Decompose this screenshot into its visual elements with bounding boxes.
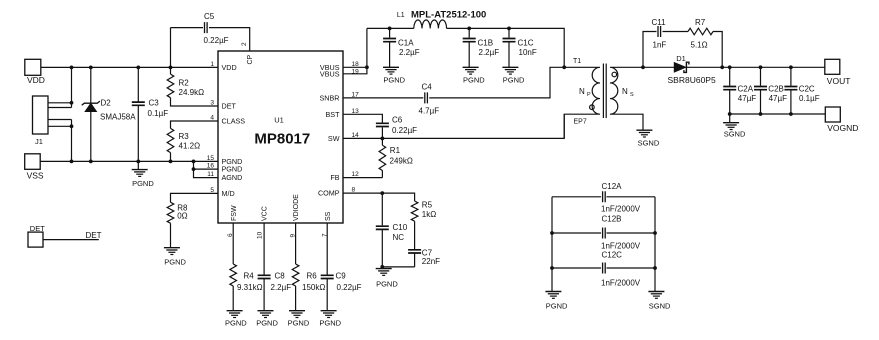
svg-text:N: N	[622, 87, 628, 96]
wire J1 pin stub 3	[48, 119, 72, 121]
ground SGND T1	[636, 129, 652, 131]
junction C1A	[388, 27, 392, 31]
svg-text:VOUT: VOUT	[827, 76, 851, 86]
svg-text:VCC: VCC	[262, 206, 269, 221]
wire PGND bus to pins	[194, 161, 219, 177]
wire CLASS pin4 to R3	[171, 121, 219, 128]
capacitor C12B	[552, 232, 655, 234]
svg-text:PGND: PGND	[376, 279, 398, 288]
svg-text:C5: C5	[204, 12, 215, 21]
svg-text:C8: C8	[275, 272, 286, 281]
svg-text:CP: CP	[247, 54, 254, 64]
svg-text:4.7µF: 4.7µF	[419, 107, 440, 116]
junction C12C	[550, 266, 554, 270]
junction C1C	[507, 27, 511, 31]
svg-text:C2A: C2A	[738, 84, 754, 93]
wire C12 left rail	[551, 197, 553, 292]
junction J1/VSS	[70, 124, 74, 128]
svg-text:10: 10	[257, 231, 264, 239]
ground PGND comp	[381, 267, 383, 269]
port VOUT	[825, 59, 840, 74]
svg-text:C3: C3	[149, 99, 160, 108]
svg-text:NC: NC	[393, 233, 405, 242]
wire VDD rail	[41, 66, 218, 68]
svg-text:VOGND: VOGND	[827, 123, 858, 133]
svg-text:C2B: C2B	[768, 84, 784, 93]
svg-text:R4: R4	[244, 272, 255, 281]
svg-text:PGND: PGND	[288, 318, 310, 327]
ground PGND C8	[258, 310, 274, 312]
wire SNBR pin17	[343, 67, 564, 98]
svg-text:C12A: C12A	[602, 182, 623, 191]
wire J1 pin stub 1	[48, 102, 72, 104]
capacitor C10	[381, 193, 383, 267]
resistor R1	[381, 138, 383, 145]
svg-text:C10: C10	[393, 223, 408, 232]
svg-text:C2C: C2C	[799, 84, 815, 93]
wire J1 pin stub 2	[48, 107, 72, 109]
wire SS pin7	[326, 223, 328, 311]
wire SW pin14	[343, 114, 564, 138]
resistor R5	[411, 201, 418, 221]
wire C12 right rail	[654, 197, 656, 292]
svg-text:1nF/2000V: 1nF/2000V	[601, 278, 641, 287]
resistor R4	[230, 264, 237, 286]
svg-text:1nF/2000V: 1nF/2000V	[601, 242, 641, 251]
svg-text:SBR8U60P5: SBR8U60P5	[668, 75, 716, 85]
svg-text:9.31kΩ: 9.31kΩ	[237, 283, 263, 292]
capacitor C1C	[508, 28, 510, 67]
svg-text:41.2Ω: 41.2Ω	[179, 142, 201, 151]
junction C12B	[550, 231, 554, 235]
svg-text:BST: BST	[326, 110, 341, 119]
junction D2 top	[89, 66, 93, 70]
svg-text:2.2µF: 2.2µF	[271, 283, 292, 292]
junction C2C top	[789, 65, 793, 69]
capacitor C7	[414, 221, 416, 267]
wire D2 branch	[90, 67, 92, 161]
svg-text:C7: C7	[422, 249, 433, 258]
wire D1 cathode	[687, 66, 825, 68]
polarity dot primary	[590, 105, 595, 110]
capacitor C2C	[790, 67, 792, 114]
svg-text:R3: R3	[179, 132, 190, 141]
svg-text:C12B: C12B	[602, 215, 622, 224]
svg-text:5: 5	[210, 187, 214, 194]
junction COMP/C10	[380, 191, 384, 195]
svg-text:SGND: SGND	[724, 130, 746, 139]
junction D2 bottom	[89, 160, 93, 164]
svg-text:EP7: EP7	[574, 119, 587, 126]
capacitor C12C	[552, 267, 655, 269]
wire J1 pin stub 4	[48, 125, 72, 127]
svg-text:D1: D1	[676, 54, 686, 63]
junction SW/C6/R1	[381, 137, 385, 141]
capacitor C3	[132, 102, 145, 105]
resistor R7	[688, 28, 713, 35]
svg-text:C12C: C12C	[602, 251, 623, 260]
svg-text:DET: DET	[86, 231, 102, 240]
svg-text:SNBR: SNBR	[320, 94, 340, 103]
wire VSS rail	[40, 160, 218, 162]
wire FSW pin6	[232, 223, 234, 264]
wire J1 to VSS	[71, 120, 73, 162]
svg-text:15: 15	[207, 155, 215, 162]
capacitor C11	[658, 26, 661, 37]
svg-text:D2: D2	[101, 99, 112, 108]
svg-text:VDD: VDD	[27, 75, 45, 85]
wire top rail right	[447, 28, 565, 67]
svg-text:PGND: PGND	[164, 257, 186, 266]
IC U1 MP8017	[218, 51, 343, 223]
capacitor C4	[425, 92, 428, 103]
wire C3 branch	[137, 67, 139, 161]
ground PGND C9	[321, 310, 337, 312]
wire snubber riser left	[643, 32, 657, 68]
svg-text:PGND: PGND	[503, 76, 525, 85]
wire top rail left	[367, 27, 414, 29]
wire VDD drop to J1	[71, 67, 73, 107]
junction VBUS	[365, 65, 369, 69]
svg-text:DET: DET	[222, 102, 237, 111]
ground SGND C12	[648, 291, 664, 293]
svg-text:VDIODE: VDIODE	[293, 194, 300, 221]
wire VDIODE pin9	[295, 223, 297, 264]
transformer core	[603, 64, 606, 119]
ground PGND R8	[170, 223, 172, 248]
junction PGND bus	[192, 160, 196, 164]
ground PGND R6	[295, 286, 297, 311]
transformer T1 secondary	[610, 67, 643, 130]
junction comp gnd	[380, 265, 384, 269]
junction C3 bottom/gnd	[136, 160, 140, 164]
svg-text:1kΩ: 1kΩ	[422, 210, 436, 219]
wire M/D pin5	[171, 193, 219, 202]
wire snubber riser right	[713, 32, 722, 68]
svg-text:SMAJ58A: SMAJ58A	[100, 113, 136, 122]
resistor R3	[167, 128, 174, 152]
svg-text:SGND: SGND	[638, 139, 660, 148]
svg-text:0.22µF: 0.22µF	[204, 36, 229, 45]
ground PGND C1B	[463, 66, 479, 68]
transformer T1 primary	[564, 67, 600, 138]
svg-text:COMP: COMP	[318, 189, 340, 198]
svg-text:C1C: C1C	[518, 39, 534, 48]
wire FB pin12	[343, 177, 382, 179]
inductor L1	[414, 20, 447, 28]
wire VBUS pins join	[343, 28, 367, 73]
svg-text:0Ω: 0Ω	[177, 212, 187, 221]
svg-text:CLASS: CLASS	[222, 117, 246, 126]
svg-text:J1: J1	[35, 137, 43, 146]
wire R2 to DET pin3	[171, 98, 219, 106]
svg-text:C11: C11	[652, 18, 667, 27]
junction SNBR/rail	[562, 65, 566, 69]
svg-text:150kΩ: 150kΩ	[302, 283, 325, 292]
svg-text:2.2µF: 2.2µF	[399, 48, 420, 57]
svg-text:N: N	[579, 87, 585, 96]
svg-text:PGND: PGND	[256, 318, 278, 327]
wire BST pin13	[343, 114, 382, 122]
wire D1 anode	[643, 66, 675, 68]
capacitor C1B	[468, 28, 470, 67]
svg-text:C1A: C1A	[398, 39, 414, 48]
svg-text:249kΩ: 249kΩ	[390, 156, 413, 165]
wire VCC pin10	[263, 223, 265, 311]
svg-text:S: S	[630, 92, 634, 98]
capacitor C6	[376, 123, 389, 126]
svg-text:1: 1	[210, 61, 214, 68]
resistor R2	[170, 67, 172, 74]
svg-text:SGND: SGND	[649, 301, 671, 310]
wire output gnd rail	[730, 113, 826, 115]
svg-text:C4: C4	[422, 83, 433, 92]
resistor R6	[292, 264, 299, 286]
svg-text:C9: C9	[336, 272, 347, 281]
junction snubber right	[720, 65, 724, 69]
wire COMP pin8	[343, 193, 415, 201]
capacitor C5	[171, 28, 250, 51]
polarity dot secondary	[612, 72, 617, 77]
svg-text:R6: R6	[307, 272, 318, 281]
svg-text:FB: FB	[330, 173, 339, 182]
ground PGND R4	[232, 286, 234, 311]
svg-text:R7: R7	[695, 18, 706, 27]
junction R3/VSS	[169, 160, 173, 164]
svg-text:47µF: 47µF	[769, 94, 788, 103]
capacitor C12A	[552, 196, 655, 198]
svg-text:DET: DET	[30, 224, 45, 233]
svg-text:1nF: 1nF	[653, 41, 667, 50]
ground PGND C1A	[383, 66, 399, 68]
svg-text:PGND: PGND	[383, 76, 405, 85]
svg-text:PGND: PGND	[225, 318, 247, 327]
wire comp gnd rail	[382, 266, 414, 268]
ground SGND output	[729, 114, 731, 123]
svg-text:2.2µF: 2.2µF	[479, 48, 500, 57]
svg-text:U1: U1	[274, 116, 284, 125]
svg-text:47µF: 47µF	[738, 94, 757, 103]
diode D2 TVS	[85, 103, 97, 111]
svg-text:FSW: FSW	[231, 205, 238, 221]
ground PGND main	[137, 161, 139, 169]
svg-text:MP8017: MP8017	[254, 131, 310, 148]
connector J1	[33, 96, 49, 134]
svg-text:0.1µF: 0.1µF	[148, 109, 169, 118]
svg-text:R1: R1	[390, 146, 401, 155]
capacitor C2B	[760, 67, 762, 114]
capacitor C9	[321, 275, 334, 278]
svg-text:1nF/2000V: 1nF/2000V	[601, 205, 641, 214]
svg-text:R5: R5	[422, 201, 433, 210]
wire DET	[43, 239, 99, 241]
svg-text:VDD: VDD	[222, 63, 237, 72]
svg-text:MPL-AT2512-100: MPL-AT2512-100	[411, 10, 486, 21]
capacitor C2A	[729, 67, 731, 114]
svg-text:L1: L1	[397, 12, 405, 19]
svg-text:M/D: M/D	[222, 189, 235, 198]
svg-text:10nF: 10nF	[519, 48, 537, 57]
svg-text:PGND: PGND	[319, 318, 341, 327]
svg-text:VBUS: VBUS	[320, 69, 340, 78]
svg-text:3: 3	[210, 100, 214, 107]
svg-text:4: 4	[210, 115, 214, 122]
svg-text:SW: SW	[328, 134, 340, 143]
junction C3 top	[136, 66, 140, 70]
svg-text:P: P	[587, 92, 591, 98]
junction T1 out	[641, 65, 645, 69]
svg-text:R2: R2	[179, 79, 190, 88]
port VOGND	[825, 107, 840, 122]
svg-text:SS: SS	[325, 211, 332, 221]
svg-text:PGND: PGND	[132, 179, 154, 188]
resistor R8	[167, 202, 174, 223]
svg-text:0.22µF: 0.22µF	[392, 126, 417, 135]
ground PGND C1C	[502, 66, 518, 68]
svg-text:0.22µF: 0.22µF	[337, 283, 362, 292]
wire R2/C5 drop	[170, 28, 172, 68]
junction VDD/J1	[70, 66, 74, 70]
diode D1	[674, 63, 686, 73]
svg-text:16: 16	[207, 163, 215, 170]
junction C2B top	[759, 65, 763, 69]
svg-text:PGND: PGND	[546, 301, 568, 310]
ground PGND C12	[545, 291, 561, 293]
junction gnd rail	[728, 112, 732, 116]
svg-text:C6: C6	[392, 116, 403, 125]
wire snubber mid	[663, 31, 689, 33]
junction C2A top	[728, 65, 732, 69]
svg-text:T1: T1	[573, 58, 581, 65]
svg-text:VSS: VSS	[27, 171, 44, 181]
junction C1B	[467, 27, 471, 31]
svg-text:24.9kΩ: 24.9kΩ	[179, 88, 205, 97]
capacitor C8	[258, 275, 271, 278]
svg-text:11: 11	[207, 171, 214, 178]
capacitor C1A	[389, 28, 391, 67]
port VDD	[25, 59, 41, 75]
svg-text:C1B: C1B	[478, 39, 494, 48]
junction VDD/R2	[169, 66, 173, 70]
svg-text:22nF: 22nF	[422, 257, 440, 266]
svg-text:PGND: PGND	[463, 76, 485, 85]
port VSS	[25, 154, 41, 170]
svg-text:0.1µF: 0.1µF	[799, 94, 820, 103]
svg-text:2: 2	[241, 42, 248, 46]
port DET	[28, 232, 43, 247]
svg-text:5.1Ω: 5.1Ω	[691, 41, 708, 50]
wire R3 to VSS	[170, 153, 172, 162]
svg-text:AGND: AGND	[222, 173, 243, 182]
